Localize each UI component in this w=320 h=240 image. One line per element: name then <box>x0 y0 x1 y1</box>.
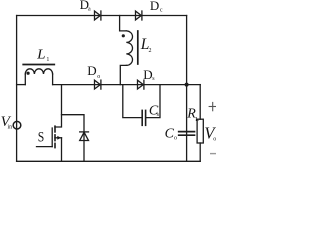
wire top rail <box>17 15 187 17</box>
capacitor Cs loop left <box>123 85 142 118</box>
svg-text:o: o <box>97 74 100 80</box>
diode body (antiparallel) <box>80 132 89 140</box>
diode Dc <box>136 11 142 20</box>
inductor L1 coil <box>25 69 52 74</box>
wire L1 left lead <box>24 74 26 85</box>
svg-text:L: L <box>36 46 46 61</box>
node junction dot <box>185 83 189 87</box>
capacitor Cs loop right <box>146 85 160 118</box>
L2 core bar <box>137 31 139 64</box>
wire body-diode branch <box>62 115 85 162</box>
wire bottom rail <box>17 160 201 162</box>
svg-text:L: L <box>195 117 199 123</box>
L2 polarity dot <box>122 34 125 37</box>
wire source lead <box>61 138 63 162</box>
svg-text:s: s <box>152 76 155 82</box>
wire middle rail <box>53 84 201 86</box>
wire L1 right lead <box>52 74 54 85</box>
diode Do (middle-left) <box>95 80 101 89</box>
transistor S channel segments <box>54 126 56 132</box>
inductor L2 coil <box>126 31 132 66</box>
svg-text:D: D <box>143 67 152 82</box>
svg-text:2: 2 <box>149 48 152 54</box>
wire L2 top lead <box>120 16 127 31</box>
L1 polarity dot <box>27 72 30 75</box>
transistor S body arrow <box>55 137 62 139</box>
wire RL branch top <box>199 85 201 120</box>
svg-text:D: D <box>150 0 159 13</box>
capacitor Co plates <box>179 131 195 133</box>
wire left rail <box>16 16 18 162</box>
transistor S gate lead <box>37 146 53 148</box>
resistor RL box <box>197 119 203 143</box>
svg-text:1: 1 <box>46 57 49 63</box>
svg-text:S: S <box>38 130 45 146</box>
svg-text:o: o <box>174 136 177 142</box>
wire right rail <box>186 16 188 162</box>
label minus <box>210 153 216 155</box>
svg-text:c: c <box>160 8 163 14</box>
svg-text:in: in <box>8 124 13 130</box>
svg-text:a: a <box>88 7 91 13</box>
capacitor Cs plates <box>141 110 143 125</box>
label plus <box>209 102 216 111</box>
source Vin circle <box>13 121 21 129</box>
wire RL branch bottom <box>199 143 201 161</box>
wire L2 bottom lead <box>120 65 126 84</box>
inductor L1 core bar <box>23 64 54 66</box>
diode Ds (middle-right) <box>138 80 144 89</box>
svg-text:D: D <box>87 63 96 78</box>
transistor S gate bar <box>51 128 53 147</box>
wire L1 left join to rail <box>17 84 26 86</box>
svg-text:o: o <box>213 136 216 142</box>
diode Da <box>95 11 101 20</box>
wire switch branch drain <box>55 85 62 127</box>
